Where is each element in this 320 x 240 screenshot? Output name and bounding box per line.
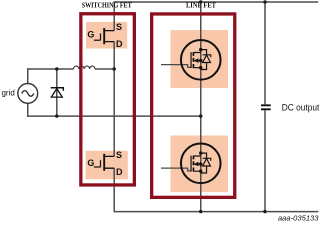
junction dot line rail top — [199, 0, 202, 3]
svg-text:DC output: DC output — [282, 102, 320, 112]
wire grid source vertical — [27, 68, 29, 117]
ac source grid — [18, 84, 38, 104]
svg-text:G: G — [87, 158, 94, 168]
junction dot diode top — [55, 67, 58, 70]
svg-text:aaa-035133: aaa-035133 — [278, 213, 319, 222]
diode D1 — [51, 88, 64, 97]
label S of Q2 — [116, 150, 122, 160]
shading rect of line FET Q3 — [171, 30, 229, 88]
label D of Q2 — [116, 167, 123, 177]
box LINE FET — [152, 14, 235, 197]
junction dot DC rail bottom — [263, 210, 266, 213]
svg-text:D: D — [116, 167, 123, 177]
label G of Q2 — [87, 158, 94, 168]
wire gate stub of line FET Q4 — [161, 168, 191, 171]
wire gate stub of line FET Q3 — [161, 65, 191, 68]
shading rect of line FET Q4 — [171, 136, 229, 193]
capacitor C1 — [261, 105, 271, 109]
svg-text:LINE FET: LINE FET — [186, 3, 216, 10]
inductor — [74, 66, 96, 69]
box SWITCHING FET — [81, 14, 135, 185]
label G of Q1 — [87, 30, 94, 40]
junction dot DC rail top — [263, 0, 266, 3]
junction dot line rail bottom — [199, 210, 202, 213]
label S of Q1 — [116, 22, 122, 32]
label aaa-035133 — [278, 213, 319, 222]
title SWITCHING FET — [82, 3, 132, 10]
svg-text:S: S — [116, 22, 122, 32]
svg-text:D: D — [116, 39, 123, 49]
wire DC output rail — [264, 1, 266, 212]
junction dot inductor to switching rail — [113, 67, 116, 70]
wire top rail — [114, 1, 318, 3]
junction dot grid return to line rail — [199, 114, 202, 117]
label DC output — [282, 102, 320, 112]
wire line leg rail — [200, 1, 202, 212]
junction dot diode bottom — [55, 114, 58, 117]
wire grid top to inductor — [27, 68, 114, 70]
svg-text:SWITCHING FET: SWITCHING FET — [82, 3, 132, 10]
svg-text:grid: grid — [1, 88, 14, 97]
mosfet Q1 (switching FET top) — [94, 28, 114, 44]
mosfet Q4 (line FET bottom, circle symbol with body diode) — [181, 144, 221, 184]
wire grid bottom — [27, 115, 201, 117]
label grid — [1, 88, 14, 97]
mosfet Q2 (switching FET bottom) — [94, 154, 114, 171]
wire switching leg rail — [113, 1, 115, 212]
svg-text:G: G — [87, 30, 94, 40]
shading rect of switching FET Q2 — [86, 151, 128, 180]
title LINE FET — [186, 3, 216, 10]
shading rect of switching FET Q1 — [86, 22, 127, 49]
svg-text:S: S — [116, 150, 122, 160]
wire bottom rail — [114, 211, 318, 213]
label D of Q1 — [116, 39, 123, 49]
wire diode branch — [56, 69, 58, 116]
mosfet Q3 (line FET top, circle symbol with body diode) — [181, 40, 221, 80]
